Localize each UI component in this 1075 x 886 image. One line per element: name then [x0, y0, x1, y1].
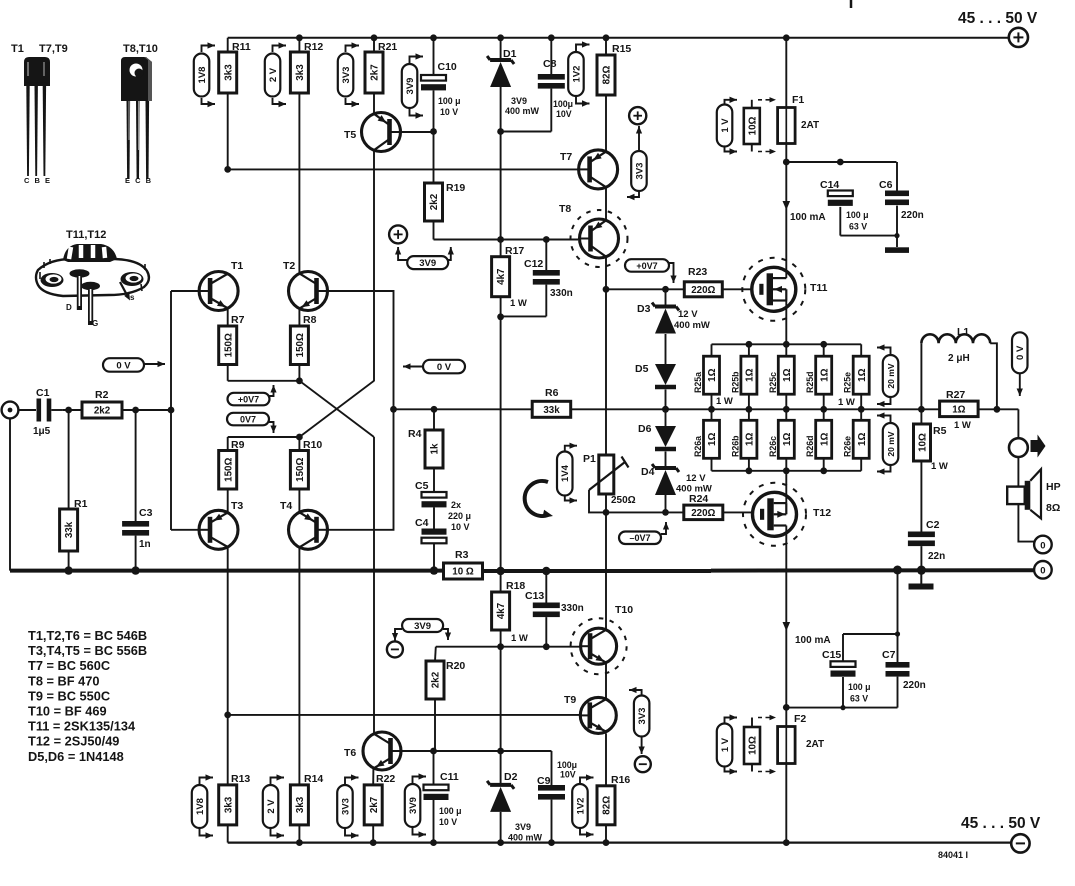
- svg-text:82Ω: 82Ω: [602, 796, 613, 815]
- svg-text:3k3: 3k3: [295, 796, 306, 813]
- svg-text:P1: P1: [583, 453, 596, 465]
- svg-text:T9 = BC 550C: T9 = BC 550C: [28, 688, 110, 703]
- node input jack: [2, 402, 19, 419]
- node - bias marker: [387, 641, 403, 657]
- ground C6/C14: [885, 247, 909, 253]
- svg-text:100 μ: 100 μ: [439, 806, 462, 816]
- svg-text:3V9: 3V9: [414, 621, 431, 632]
- svg-text:1Ω: 1Ω: [857, 433, 868, 446]
- wire C8 top lead: [548, 34, 555, 74]
- wire top-edge tick: [850, 0, 853, 8]
- svg-text:T7: T7: [560, 151, 572, 163]
- resistor R20: [426, 660, 465, 699]
- svg-text:D5: D5: [635, 363, 649, 375]
- resistor R26b: [730, 409, 757, 471]
- svg-text:84041 I: 84041 I: [938, 850, 968, 860]
- node speaker 0 terminal: [1034, 536, 1052, 554]
- svg-text:T8 = BF 470: T8 = BF 470: [28, 673, 99, 688]
- resistor R6: [532, 387, 571, 417]
- svg-text:–0V7: –0V7: [629, 533, 650, 543]
- svg-text:R9: R9: [231, 439, 245, 451]
- wire D4 bottom: [662, 495, 669, 516]
- resistor R10: [290, 439, 322, 489]
- svg-text:R16: R16: [611, 774, 630, 786]
- wire F1 lower junction: [783, 144, 897, 166]
- svg-text:0: 0: [1040, 540, 1045, 551]
- svg-text:R26c: R26c: [768, 436, 778, 457]
- svg-text:1 V: 1 V: [720, 737, 731, 752]
- svg-text:100 μ: 100 μ: [848, 682, 871, 692]
- svg-text:R21: R21: [378, 41, 397, 53]
- wire R24 to T12 gate: [723, 511, 761, 513]
- svg-text:T3: T3: [231, 500, 243, 512]
- svg-text:2 V: 2 V: [268, 67, 279, 82]
- svg-text:0 V: 0 V: [437, 362, 452, 373]
- wire C5-C4: [433, 507, 435, 528]
- callout 3V9 lower: [392, 619, 451, 641]
- svg-text:3V9: 3V9: [515, 822, 531, 832]
- wire R9-T3: [227, 489, 229, 512]
- svg-text:R15: R15: [612, 43, 631, 55]
- wire jack ground: [9, 418, 11, 570]
- wire R17 leads: [497, 240, 504, 321]
- svg-text:T12: T12: [813, 507, 831, 519]
- package label T8 T10: [123, 43, 158, 55]
- capacitor C9: [537, 760, 577, 800]
- svg-text:82Ω: 82Ω: [602, 65, 613, 84]
- wire R2 to input node: [122, 407, 174, 414]
- wire C11 leads: [430, 751, 437, 846]
- svg-text:100 mA: 100 mA: [795, 635, 831, 646]
- callout 3V9 bias: [395, 247, 454, 269]
- callout 2V top: [265, 42, 286, 107]
- resistor 10R fuse F1: [744, 100, 760, 152]
- resistor R13: [219, 773, 251, 825]
- resistor R22: [364, 773, 395, 825]
- callout 2V bottom: [263, 774, 284, 838]
- svg-text:F1: F1: [792, 94, 804, 106]
- svg-text:1Ω: 1Ω: [819, 368, 830, 381]
- wire R5 leads: [920, 409, 922, 531]
- svg-text:100 μ: 100 μ: [438, 96, 461, 106]
- svg-text:0: 0: [1040, 566, 1045, 577]
- svg-text:2 V: 2 V: [266, 799, 277, 814]
- svg-text:3V3: 3V3: [634, 163, 645, 180]
- wire C9 bottom: [548, 800, 555, 846]
- node drawing number: [938, 850, 968, 860]
- resistor R18: [492, 580, 528, 644]
- wire P1 wiper: [589, 490, 606, 512]
- transistor T6: [344, 732, 401, 770]
- svg-text:1V2: 1V2: [575, 798, 586, 815]
- wire C15 C7 branch: [843, 570, 900, 662]
- svg-text:E C B: E C B: [125, 176, 153, 185]
- svg-text:2AT: 2AT: [801, 120, 819, 131]
- svg-text:1 W: 1 W: [510, 298, 527, 309]
- svg-text:L1: L1: [957, 326, 969, 338]
- resistor R26c: [768, 409, 795, 471]
- node output terminal: [1009, 438, 1028, 457]
- node - marker T9: [635, 756, 651, 772]
- wire T6 base wire: [399, 748, 552, 785]
- svg-text:C3: C3: [139, 507, 153, 519]
- svg-text:1 W: 1 W: [838, 397, 855, 408]
- svg-text:4k7: 4k7: [496, 602, 507, 619]
- wire R14 bottom: [296, 825, 303, 846]
- svg-text:T8,T10: T8,T10: [123, 43, 158, 55]
- wire R12-T2 collector: [298, 93, 300, 273]
- svg-text:3V9: 3V9: [511, 96, 527, 106]
- svg-text:D4: D4: [641, 466, 655, 478]
- svg-text:1Ω: 1Ω: [745, 368, 756, 381]
- speaker HP: [1007, 469, 1060, 518]
- svg-text:T3,T4,T5 = BC 556B: T3,T4,T5 = BC 556B: [28, 643, 147, 658]
- svg-text:2x: 2x: [451, 500, 461, 510]
- resistor R5: [914, 424, 948, 472]
- svg-text:0 V: 0 V: [1015, 345, 1026, 360]
- node bus 0 terminal: [1034, 561, 1052, 579]
- wire T12 source to bank: [785, 471, 787, 503]
- svg-text:1Ω: 1Ω: [782, 433, 793, 446]
- wire bottom tail: [228, 434, 303, 451]
- wire R11 top lead: [227, 38, 229, 52]
- svg-text:R4: R4: [408, 428, 422, 440]
- svg-text:R3: R3: [455, 549, 469, 561]
- svg-text:T11: T11: [810, 282, 828, 294]
- svg-text:63 V: 63 V: [849, 222, 867, 232]
- svg-text:1μ5: 1μ5: [33, 426, 51, 437]
- svg-text:C10: C10: [438, 61, 457, 73]
- svg-text:T9: T9: [564, 694, 576, 706]
- wire R22 bottom: [370, 825, 377, 846]
- callout 1V fuse F2: [717, 714, 737, 774]
- capacitor C10: [421, 61, 461, 117]
- wire T12 drain down: [783, 526, 831, 708]
- svg-text:220n: 220n: [903, 680, 926, 691]
- svg-text:10Ω: 10Ω: [747, 116, 758, 135]
- resistor R4: [408, 428, 443, 468]
- callout 1V2 bottom: [572, 774, 593, 837]
- svg-text:3V3: 3V3: [637, 708, 648, 725]
- svg-text:R24: R24: [689, 493, 708, 505]
- transistor T10: [571, 604, 634, 674]
- wire D6-D4: [665, 452, 667, 469]
- callout 1V2 top: [568, 41, 589, 106]
- svg-text:C5: C5: [415, 480, 429, 492]
- svg-text:s: s: [130, 293, 135, 302]
- svg-text:D1: D1: [503, 48, 517, 60]
- wire bank bottom rail: [712, 467, 862, 474]
- svg-text:R27: R27: [946, 389, 965, 401]
- svg-text:R18: R18: [506, 580, 525, 592]
- svg-text:0 V: 0 V: [116, 360, 131, 371]
- node supply label bottom: [961, 815, 1041, 832]
- wire T6 collector: [373, 437, 375, 733]
- mosfet T11: [742, 258, 827, 321]
- wire T8 emitter to gate node: [603, 257, 610, 293]
- svg-text:R25a: R25a: [693, 372, 703, 393]
- wire R15-T7: [605, 95, 607, 152]
- svg-text:R26a: R26a: [693, 436, 703, 457]
- resistor R19: [425, 182, 466, 221]
- node + marker T7: [629, 107, 646, 124]
- wire C13 leads: [543, 571, 550, 650]
- svg-text:12 V: 12 V: [678, 309, 698, 320]
- svg-text:T11 = 2SK135/134: T11 = 2SK135/134: [28, 719, 136, 734]
- package TO126 pins label: [125, 176, 153, 185]
- svg-text:+0V7: +0V7: [636, 261, 657, 271]
- callout 0V input: [103, 358, 165, 372]
- package label T1: [11, 43, 24, 55]
- svg-text:3V3: 3V3: [341, 67, 352, 84]
- wire R13 bottom: [227, 825, 229, 843]
- svg-text:T7,T9: T7,T9: [39, 43, 68, 55]
- wire T4 collector down: [298, 548, 300, 785]
- svg-text:F2: F2: [794, 713, 806, 725]
- wire C15 C7 bottom: [783, 677, 898, 711]
- svg-text:100μ: 100μ: [553, 99, 573, 109]
- wire +V top supply rail: [228, 37, 1009, 39]
- svg-text:R1: R1: [74, 498, 88, 510]
- capacitor C6: [879, 179, 924, 221]
- svg-text:C15: C15: [822, 649, 841, 661]
- trimmer P1: [583, 453, 636, 506]
- svg-text:R5: R5: [933, 425, 947, 437]
- svg-text:3V9: 3V9: [419, 258, 436, 269]
- svg-text:20 mV: 20 mV: [886, 363, 896, 389]
- svg-text:T7 = BC 560C: T7 = BC 560C: [28, 658, 110, 673]
- svg-text:10 Ω: 10 Ω: [452, 567, 474, 578]
- wire T2-R8: [298, 310, 300, 327]
- svg-text:1 W: 1 W: [954, 420, 971, 431]
- wire T5 collector: [373, 151, 375, 381]
- wire T9-R16: [605, 733, 607, 785]
- resistor R11: [219, 41, 251, 93]
- svg-text:3V9: 3V9: [405, 78, 416, 95]
- svg-text:R25b: R25b: [730, 371, 740, 393]
- callout 20mV top: [877, 344, 898, 407]
- svg-text:1Ω: 1Ω: [857, 368, 868, 381]
- wire cross B: [299, 381, 374, 437]
- callout +0V7 gate: [625, 259, 677, 283]
- svg-text:400 mW: 400 mW: [508, 833, 543, 843]
- wire mid rail to output: [997, 409, 1019, 438]
- callout 1V8 top: [194, 42, 215, 107]
- wire R4 top lead: [433, 409, 435, 430]
- svg-text:220Ω: 220Ω: [691, 285, 715, 296]
- resistor R25e: [843, 344, 870, 412]
- wire T6 emitter to R22: [372, 769, 374, 785]
- svg-text:22n: 22n: [928, 551, 945, 562]
- callout 0V7 input: [227, 413, 277, 433]
- resistor R7: [219, 314, 245, 365]
- svg-text:2k2: 2k2: [431, 671, 442, 688]
- svg-text:220Ω: 220Ω: [691, 508, 715, 519]
- svg-text:T5: T5: [344, 129, 356, 141]
- svg-text:C2: C2: [926, 519, 940, 531]
- svg-text:3k3: 3k3: [223, 64, 234, 81]
- svg-text:1V2: 1V2: [571, 66, 582, 83]
- svg-text:2 μH: 2 μH: [948, 353, 970, 364]
- svg-text:33k: 33k: [64, 521, 75, 538]
- wire C4 to bus: [430, 544, 438, 575]
- svg-text:1Ω: 1Ω: [707, 368, 718, 381]
- svg-text:C13: C13: [525, 590, 544, 602]
- wire C10 top lead: [430, 34, 437, 75]
- transistor T3: [199, 500, 243, 549]
- svg-text:1V8: 1V8: [195, 798, 206, 815]
- svg-text:T12 = 2SJ50/49: T12 = 2SJ50/49: [28, 734, 119, 749]
- svg-text:100μ: 100μ: [557, 760, 577, 770]
- callout 3V9 bottom: [405, 773, 426, 837]
- wire R16 to rail: [603, 825, 610, 846]
- resistor R24: [684, 493, 723, 520]
- svg-text:T11,T12: T11,T12: [66, 229, 106, 241]
- wire D5-D6: [662, 390, 669, 427]
- diode D6: [638, 423, 676, 449]
- resistor R17: [492, 245, 527, 309]
- package TO92: [24, 57, 50, 176]
- svg-text:2k7: 2k7: [370, 64, 381, 81]
- output arrow: [1031, 435, 1046, 458]
- capacitor C11: [424, 771, 462, 827]
- zener D1: [487, 48, 539, 116]
- svg-text:330n: 330n: [561, 603, 584, 614]
- wire D1 top lead: [497, 34, 504, 60]
- wire R18 leads: [497, 571, 504, 650]
- callout 20mV bottom: [877, 412, 898, 474]
- capacitor C12: [524, 258, 573, 299]
- svg-text:3k3: 3k3: [223, 796, 234, 813]
- resistor R1: [60, 498, 88, 551]
- svg-text:45 . . . 50 V: 45 . . . 50 V: [961, 815, 1041, 832]
- svg-text:150Ω: 150Ω: [223, 333, 234, 357]
- wire top tail: [228, 365, 303, 385]
- capacitor C7: [882, 649, 926, 691]
- svg-text:R14: R14: [304, 773, 323, 785]
- callout 0V right: [403, 360, 465, 374]
- svg-text:1 V: 1 V: [720, 118, 731, 133]
- zener D4: [641, 464, 712, 495]
- wire T3 collector down: [224, 548, 231, 718]
- wire jack to C1: [18, 409, 36, 411]
- svg-text:3V3: 3V3: [340, 798, 351, 815]
- callout 1V8 bottom: [192, 774, 213, 838]
- callout 3V3 bottom: [337, 774, 358, 838]
- wire R24 node: [606, 511, 684, 513]
- svg-text:C6: C6: [879, 179, 893, 191]
- node + bias marker: [389, 225, 407, 243]
- callout 3V9 top: [402, 53, 423, 118]
- wire D1 column down: [500, 132, 502, 240]
- node -45V terminal: [1011, 834, 1029, 852]
- svg-text:C4: C4: [415, 517, 429, 529]
- svg-text:R22: R22: [376, 773, 395, 785]
- wire speaker line: [1018, 457, 1034, 542]
- svg-text:220 μ: 220 μ: [448, 511, 471, 521]
- svg-text:R13: R13: [231, 773, 250, 785]
- wire R19 bottom to bias node: [433, 221, 435, 240]
- svg-text:R20: R20: [446, 660, 465, 672]
- svg-text:1 W: 1 W: [511, 633, 528, 644]
- svg-text:C12: C12: [524, 258, 543, 270]
- svg-text:R7: R7: [231, 314, 245, 326]
- svg-text:T4: T4: [280, 500, 292, 512]
- svg-text:150Ω: 150Ω: [295, 458, 306, 482]
- wire C6 top lead: [896, 162, 898, 191]
- svg-text:1Ω: 1Ω: [745, 433, 756, 446]
- transistor T1: [199, 260, 243, 311]
- capacitor C2: [908, 519, 945, 562]
- bus ground right: [711, 566, 1034, 575]
- svg-text:10Ω: 10Ω: [748, 736, 759, 755]
- capacitor C13: [525, 590, 584, 617]
- svg-text:12 V: 12 V: [686, 473, 706, 484]
- wire feedback rail: [394, 406, 712, 413]
- svg-text:C7: C7: [882, 649, 896, 661]
- node supply label top: [958, 10, 1038, 27]
- package TO92 pins label: [24, 176, 52, 185]
- svg-text:R2: R2: [95, 389, 109, 401]
- svg-text:R19: R19: [446, 182, 465, 194]
- svg-text:2k2: 2k2: [429, 193, 440, 210]
- wire R10 top lead: [298, 437, 300, 451]
- svg-text:10Ω: 10Ω: [918, 433, 929, 452]
- mosfet T12: [743, 483, 831, 546]
- resistor R25b: [730, 344, 757, 412]
- svg-text:D5,D6 = 1N4148: D5,D6 = 1N4148: [28, 749, 124, 764]
- wire F2 leads: [783, 707, 790, 846]
- wire R15 top lead: [603, 34, 610, 55]
- capacitor C4: [415, 500, 471, 543]
- node +45V terminal: [1009, 28, 1028, 47]
- wire F1 top lead: [783, 34, 790, 107]
- wire bank top rail: [712, 341, 862, 348]
- wire C3 leads: [131, 410, 139, 575]
- parts list: [28, 628, 147, 764]
- svg-text:T1,T2,T6 = BC 546B: T1,T2,T6 = BC 546B: [28, 628, 147, 643]
- bus ground mid: [483, 567, 712, 575]
- svg-text:10 V: 10 V: [439, 817, 457, 827]
- resistor R12: [290, 41, 323, 93]
- svg-text:1 W: 1 W: [931, 461, 948, 472]
- wire T5 base to C10 node: [390, 128, 437, 135]
- resistor R8: [290, 314, 316, 365]
- svg-text:R17: R17: [505, 245, 524, 257]
- svg-text:T2: T2: [283, 260, 295, 272]
- zener D3: [637, 303, 710, 334]
- svg-text:R23: R23: [688, 266, 707, 278]
- svg-text:R26b: R26b: [730, 435, 740, 457]
- capacitor C5: [415, 480, 447, 507]
- svg-text:2k2: 2k2: [94, 406, 111, 417]
- bus bottom rail: [228, 841, 1011, 843]
- svg-text:4k7: 4k7: [496, 268, 507, 285]
- svg-text:R25d: R25d: [805, 371, 815, 393]
- capacitor C15: [822, 649, 871, 704]
- svg-text:250Ω: 250Ω: [611, 495, 636, 506]
- capacitor C3: [122, 507, 152, 550]
- wire T8 emitter col to P1: [605, 289, 607, 455]
- transistor T7: [560, 150, 618, 189]
- wire T2/T4 base link: [328, 291, 397, 530]
- svg-text:20 mV: 20 mV: [886, 431, 896, 457]
- svg-text:D2: D2: [504, 771, 518, 783]
- callout 3V3 top: [338, 42, 359, 107]
- resistor R25c: [768, 344, 795, 412]
- wire R21-T5 emitter: [373, 93, 375, 113]
- resistor R26e: [843, 409, 870, 471]
